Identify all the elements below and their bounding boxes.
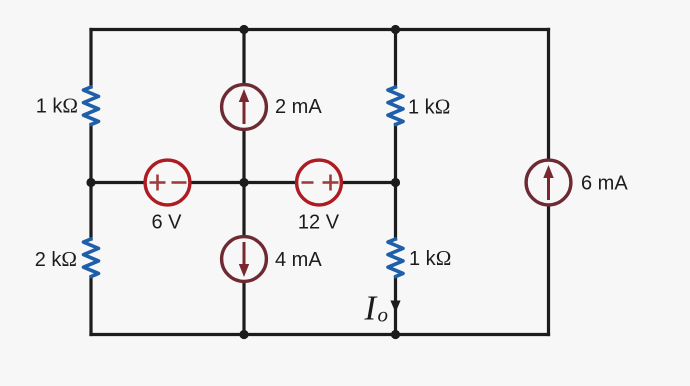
wire bottom horizontal	[91, 333, 549, 336]
current source 4mA circle	[222, 237, 267, 282]
svg-text:6 V: 6 V	[151, 212, 182, 234]
voltage source 12V circle	[297, 160, 342, 205]
wire middle vertical below 4mA	[242, 281, 245, 334]
wire far-right vertical upper	[547, 30, 550, 161]
node top middle	[239, 25, 248, 34]
svg-text:2 kΩ: 2 kΩ	[35, 247, 77, 271]
wire middle vertical above 2mA	[242, 30, 245, 85]
node top right-middle	[391, 25, 400, 34]
wire left vertical middle	[89, 125, 92, 240]
current source 6mA arrow	[543, 165, 553, 200]
svg-text:2 mA: 2 mA	[275, 96, 322, 118]
svg-text:1 kΩ: 1 kΩ	[409, 246, 451, 270]
node bottom right-middle	[391, 330, 400, 339]
resistor R 2kOhm left bottom	[84, 239, 99, 277]
wire left vertical upper	[89, 30, 92, 88]
node mid middle	[239, 178, 248, 187]
wire right-middle vertical upper	[394, 30, 397, 88]
svg-text:1 kΩ: 1 kΩ	[408, 95, 450, 119]
current source 4mA arrow	[239, 242, 249, 277]
node mid left	[86, 178, 95, 187]
wire far-right vertical lower	[547, 205, 550, 335]
voltage source 6V plus sign	[150, 175, 166, 191]
svg-text:1 kΩ: 1 kΩ	[36, 94, 78, 118]
resistor R 1kOhm right bottom	[388, 239, 403, 277]
svg-text:12 V: 12 V	[298, 212, 340, 234]
wire mid-row right of 12V	[341, 181, 395, 184]
node bottom middle	[239, 330, 248, 339]
current source 6mA circle	[526, 160, 571, 205]
resistor R 1kOhm right top	[388, 87, 403, 125]
node mid right-middle	[391, 178, 400, 187]
current source 2mA arrow	[239, 89, 249, 124]
wire right-middle vertical middle	[394, 125, 397, 240]
voltage source 12V plus sign	[323, 175, 339, 191]
wire mid-row left of 6V	[91, 181, 145, 184]
svg-text:6 mA: 6 mA	[581, 173, 628, 195]
arrow Io on wire	[390, 301, 400, 313]
resistor R 1kOhm left top	[84, 87, 99, 125]
wire right-middle vertical lower	[394, 277, 397, 335]
wire middle vertical between sources	[242, 129, 245, 236]
voltage source 12V minus sign	[302, 181, 314, 184]
wire top horizontal	[91, 28, 549, 31]
wire left vertical lower	[89, 277, 92, 335]
svg-text:o: o	[378, 303, 389, 327]
wire mid-row between 6V and 12V	[190, 181, 297, 184]
voltage source 6V minus sign	[172, 181, 187, 184]
voltage source 6V circle	[145, 160, 190, 205]
svg-text:4 mA: 4 mA	[275, 249, 322, 271]
current source 2mA circle	[222, 85, 267, 130]
